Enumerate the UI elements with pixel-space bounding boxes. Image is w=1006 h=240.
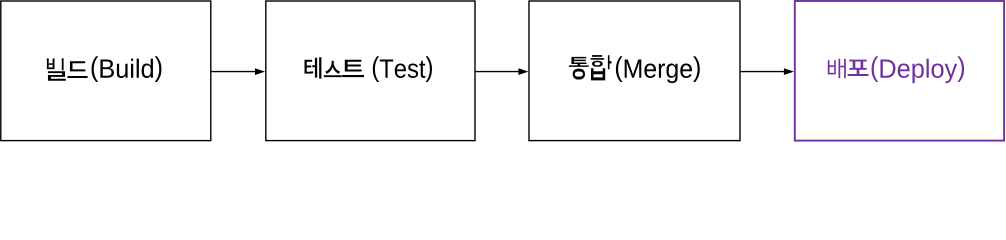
- text: 통합 (Korean, box 3): [569, 55, 612, 80]
- arrow: Build to Test: [212, 71, 256, 73]
- text: (Deploy): [872, 56, 965, 83]
- text: (Test): [373, 56, 432, 82]
- box: 통합(Merge): [529, 1, 740, 141]
- text: (Build): [91, 56, 161, 82]
- arrow: Merge to Deploy: [741, 71, 785, 73]
- arrow: Test to Merge: [476, 71, 519, 73]
- text: (Merge): [616, 56, 700, 83]
- box: 테스트(Test): [266, 1, 475, 141]
- text: 배포 (Korean, box 4): [828, 59, 869, 78]
- text: 빌드 (Korean, box 1): [47, 58, 88, 81]
- text: 테스트 (Korean, box 2): [305, 57, 365, 78]
- box: 빌드(Build): [1, 1, 211, 141]
- box: 배포(Deploy): [795, 1, 1004, 141]
